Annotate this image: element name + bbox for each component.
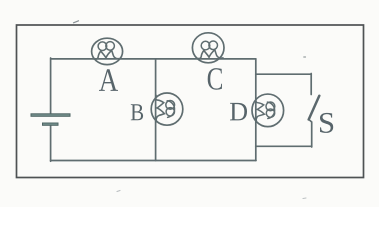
stray speck bottom right [303, 197, 306, 200]
label S [320, 113, 333, 133]
label D [230, 103, 247, 120]
wire: bottom wire [51, 160, 256, 162]
wire: switch branch upper horizontal [256, 73, 311, 75]
lamp C [192, 33, 224, 63]
label B [131, 104, 143, 120]
border frame [17, 25, 364, 178]
wire: switch branch lower vertical lead [310, 121, 312, 148]
wire: switch branch lower horizontal [256, 145, 312, 147]
switch S blade [309, 96, 320, 120]
wire: left wire lower (battery bottom lead) [50, 125, 52, 161]
wire: left wire upper (battery top lead) [50, 58, 52, 114]
wire: switch branch upper vertical lead [310, 74, 312, 95]
stray speck below frame [117, 191, 120, 192]
label A [99, 69, 118, 91]
stray speck near switch wire [304, 56, 306, 58]
label C [208, 68, 222, 90]
stray pen tick above frame [74, 21, 79, 23]
wire: top wire from battery branch to D branch [51, 58, 256, 60]
wire: D branch vertical [255, 59, 257, 161]
battery: short negative plate [43, 123, 59, 125]
lamp A [92, 38, 123, 64]
lamp D [252, 94, 284, 127]
wire: B branch vertical [155, 59, 157, 161]
lamp B [151, 93, 183, 125]
battery: long positive plate [31, 114, 70, 117]
